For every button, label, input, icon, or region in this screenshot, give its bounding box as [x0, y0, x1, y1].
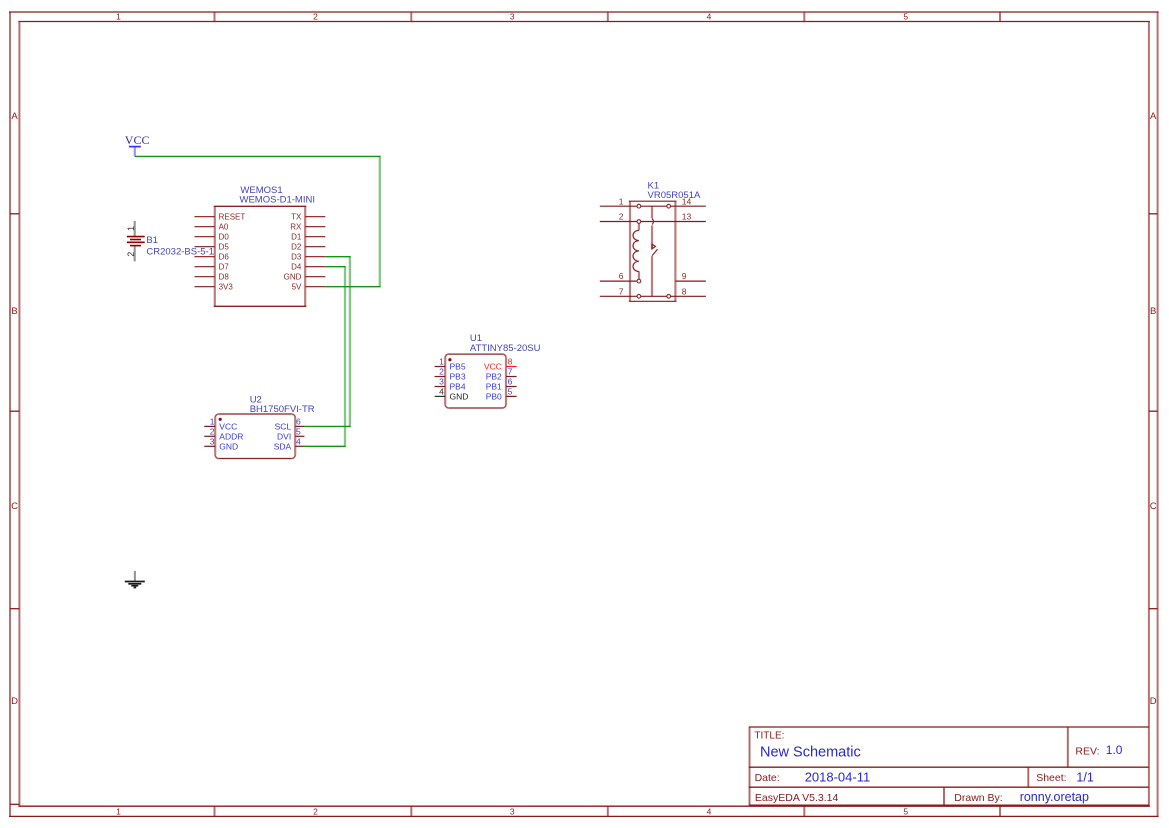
svg-text:4: 4 — [707, 806, 712, 816]
svg-text:4: 4 — [439, 387, 444, 397]
svg-text:A0: A0 — [219, 223, 229, 232]
svg-text:6: 6 — [619, 271, 624, 281]
svg-text:8: 8 — [682, 286, 687, 296]
svg-text:5: 5 — [296, 426, 301, 436]
svg-text:Date:: Date: — [755, 772, 780, 784]
svg-text:REV:: REV: — [1075, 745, 1099, 757]
svg-text:SCL: SCL — [275, 422, 292, 432]
svg-text:2018-04-11: 2018-04-11 — [805, 769, 871, 784]
svg-text:CR2032-BS-5-1: CR2032-BS-5-1 — [146, 247, 214, 258]
svg-text:GND: GND — [219, 442, 238, 452]
svg-text:D6: D6 — [219, 253, 230, 262]
svg-text:D7: D7 — [219, 263, 230, 272]
svg-text:TITLE:: TITLE: — [754, 730, 784, 741]
svg-text:TX: TX — [291, 213, 302, 222]
svg-text:SDA: SDA — [274, 442, 292, 452]
svg-text:D3: D3 — [291, 253, 302, 262]
svg-text:GND: GND — [450, 392, 469, 402]
svg-text:5: 5 — [903, 806, 908, 816]
svg-text:1: 1 — [116, 806, 121, 816]
svg-text:1: 1 — [126, 226, 136, 231]
svg-text:New Schematic: New Schematic — [760, 745, 861, 761]
svg-text:1: 1 — [210, 417, 215, 427]
svg-text:EasyEDA V5.3.14: EasyEDA V5.3.14 — [755, 792, 839, 804]
svg-text:D5: D5 — [219, 243, 230, 252]
svg-text:D0: D0 — [219, 233, 230, 242]
svg-text:6: 6 — [508, 377, 513, 387]
svg-text:D4: D4 — [291, 263, 302, 272]
svg-text:2: 2 — [619, 212, 624, 222]
svg-text:1: 1 — [619, 196, 624, 206]
svg-text:3: 3 — [439, 377, 444, 387]
svg-text:2: 2 — [439, 367, 444, 377]
svg-text:GND: GND — [284, 273, 302, 282]
svg-text:5: 5 — [903, 12, 908, 22]
svg-text:1: 1 — [116, 12, 121, 22]
svg-text:3: 3 — [210, 436, 215, 446]
svg-text:3V3: 3V3 — [219, 283, 234, 292]
svg-text:6: 6 — [296, 417, 301, 427]
svg-text:1/1: 1/1 — [1076, 770, 1093, 784]
svg-text:14: 14 — [682, 196, 692, 206]
svg-text:2: 2 — [313, 806, 318, 816]
svg-text:3: 3 — [510, 12, 515, 22]
svg-text:VCC: VCC — [125, 133, 150, 147]
svg-text:RESET: RESET — [219, 213, 246, 222]
svg-text:WEMOS-D1-MINI: WEMOS-D1-MINI — [240, 194, 315, 205]
svg-text:5: 5 — [508, 387, 513, 397]
svg-text:1.0: 1.0 — [1106, 743, 1123, 757]
svg-text:7: 7 — [508, 367, 513, 377]
svg-text:1: 1 — [439, 357, 444, 367]
svg-text:D8: D8 — [219, 273, 230, 282]
svg-text:2: 2 — [313, 12, 318, 22]
svg-text:Sheet:: Sheet: — [1036, 772, 1066, 784]
svg-text:PB5: PB5 — [450, 362, 466, 372]
svg-text:PB1: PB1 — [486, 382, 502, 392]
svg-text:PB0: PB0 — [486, 392, 502, 402]
svg-text:2: 2 — [210, 426, 215, 436]
svg-text:BH1750FVI-TR: BH1750FVI-TR — [250, 404, 315, 415]
svg-text:C: C — [11, 501, 18, 512]
svg-text:A: A — [1150, 111, 1157, 122]
svg-text:D: D — [11, 696, 18, 707]
svg-text:DVI: DVI — [277, 432, 291, 442]
svg-text:13: 13 — [682, 212, 692, 222]
svg-text:PB3: PB3 — [450, 372, 466, 382]
svg-text:A: A — [11, 111, 18, 122]
svg-text:D: D — [1150, 696, 1157, 707]
svg-text:5V: 5V — [292, 283, 302, 292]
svg-text:Drawn By:: Drawn By: — [954, 792, 1002, 804]
svg-text:B: B — [1150, 306, 1156, 317]
svg-text:VCC: VCC — [484, 362, 502, 372]
svg-text:4: 4 — [296, 436, 301, 446]
svg-text:VR05R051A: VR05R051A — [648, 190, 701, 201]
svg-text:B1: B1 — [146, 235, 158, 246]
svg-text:D1: D1 — [291, 233, 302, 242]
svg-text:ADDR: ADDR — [219, 432, 243, 442]
svg-text:7: 7 — [619, 286, 624, 296]
svg-text:B: B — [11, 306, 17, 317]
svg-text:4: 4 — [707, 12, 712, 22]
svg-text:3: 3 — [510, 806, 515, 816]
svg-text:RX: RX — [290, 223, 302, 232]
svg-text:C: C — [1150, 501, 1157, 512]
svg-text:PB2: PB2 — [486, 372, 502, 382]
svg-text:2: 2 — [126, 252, 136, 257]
svg-text:8: 8 — [508, 357, 513, 367]
svg-text:D2: D2 — [291, 243, 302, 252]
svg-text:PB4: PB4 — [450, 382, 466, 392]
svg-text:9: 9 — [682, 271, 687, 281]
svg-text:ronny.oretap: ronny.oretap — [1020, 790, 1089, 804]
svg-text:ATTINY85-20SU: ATTINY85-20SU — [470, 343, 541, 354]
svg-text:VCC: VCC — [219, 422, 237, 432]
